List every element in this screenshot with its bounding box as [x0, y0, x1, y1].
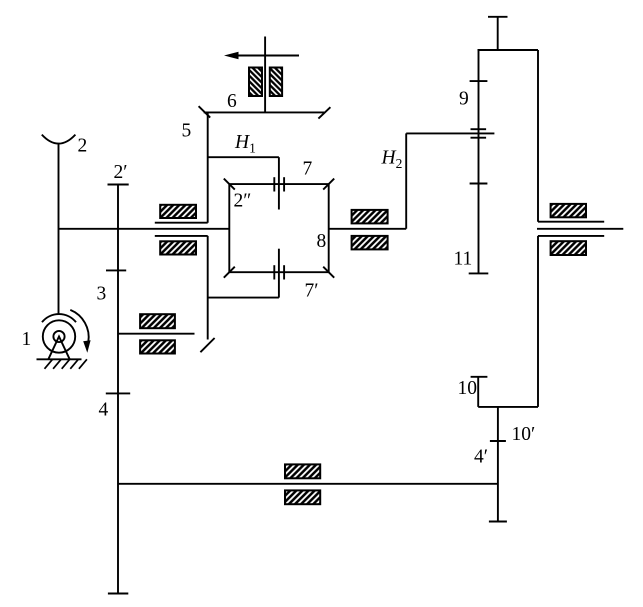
planet 7' hub bar right	[283, 265, 285, 279]
gear 10 stub	[477, 377, 479, 407]
bearing block below shaft 8	[352, 236, 388, 250]
sleeve bottom line at left bearing	[155, 235, 208, 237]
arrow head pointing left	[224, 52, 239, 59]
bearing block above output shaft	[551, 204, 586, 217]
drum right line lower segment	[537, 236, 539, 407]
bearing block below output shaft	[551, 241, 586, 255]
motor 1 inner circle	[53, 331, 64, 342]
gear 9 tick	[470, 80, 488, 82]
input horizontal shaft (wire)	[59, 228, 230, 230]
carrier H1 top arm	[208, 156, 279, 158]
sleeve top line at left bearing	[155, 222, 208, 224]
gear 6 face line	[204, 111, 325, 113]
bevel tick right end of gear 6 line	[318, 107, 330, 118]
H2 sleeve bar above shaft 9-11	[471, 128, 487, 130]
rotation arrow head	[83, 340, 90, 353]
bevel tick top-left corner	[224, 179, 235, 190]
svg-text:1: 1	[22, 329, 32, 350]
motor ground line	[37, 358, 82, 360]
output sleeve bottom line	[538, 235, 604, 237]
motor 1 outer circle	[43, 320, 75, 352]
drum top line	[478, 49, 539, 51]
planet 7 hub bar left	[273, 177, 275, 191]
drum bottom line (gear 10 arm)	[478, 406, 538, 408]
bearing block above lower-left shaft	[140, 314, 175, 328]
svg-text:2′: 2′	[114, 162, 128, 183]
motor 1 casing arc	[42, 314, 76, 322]
bearing block lower-left of input shaft	[160, 241, 196, 254]
motor 1 support triangle	[48, 337, 69, 360]
planet 7 hub bar right	[283, 177, 285, 191]
svg-text:11: 11	[454, 249, 473, 270]
carrier H1 bottom arm	[208, 297, 279, 299]
bevel tick bottom-left corner	[224, 267, 235, 278]
shaft 9-11 bottom end-cap	[469, 272, 489, 274]
lower-left horizontal shaft (wire)	[118, 333, 195, 335]
carrier H2 vertical arm	[405, 133, 407, 228]
svg-text:3: 3	[97, 284, 107, 305]
bevel tick at bottom of gear-5 shaft	[200, 338, 214, 352]
bevel tick top-right corner	[323, 179, 334, 190]
gear 5 hollow shaft upper segment	[207, 112, 209, 222]
gear 11 tick	[470, 183, 488, 185]
gear 3 tick	[106, 269, 126, 271]
svg-text:10: 10	[458, 378, 478, 399]
ring gear stub at top	[497, 17, 499, 50]
arrow line at gear 6 shaft	[231, 55, 299, 57]
shaft bottom end-cap	[108, 593, 128, 595]
shaft of motor / gear 2 (vertical wire)	[58, 143, 60, 315]
shaft of gear 8 (wire)	[329, 228, 407, 230]
svg-text:2: 2	[78, 136, 88, 157]
bearing block upper-left of input shaft	[160, 205, 196, 218]
bearing block above bottom shaft	[285, 464, 320, 478]
bevel tick bottom-right corner	[323, 267, 334, 278]
svg-text:10′: 10′	[512, 424, 536, 445]
drum right line upper segment	[537, 50, 539, 222]
shaft of gears 9 and 11 (vertical wire)	[478, 50, 480, 273]
shaft of gears 2',3,4 (vertical wire)	[117, 185, 119, 594]
gear 4 tick	[106, 392, 130, 394]
shaft of 10'/4' (vertical wire)	[497, 407, 499, 522]
svg-text:2″: 2″	[234, 191, 252, 212]
gear 6 vertical shaft	[264, 37, 266, 113]
gear 2' end-cap	[108, 184, 129, 186]
ring gear stub end-cap	[488, 16, 508, 18]
bearing block left of gear-6 shaft	[249, 68, 262, 97]
bearing block above shaft 8	[352, 210, 388, 224]
bevel gear square right line (gear 8)	[328, 184, 330, 272]
svg-text:8: 8	[317, 231, 327, 252]
svg-text:4: 4	[99, 400, 109, 421]
bevel gear square top line (planet 7)	[229, 183, 328, 185]
svg-text:7: 7	[303, 159, 313, 180]
gear 2 (arc symbol)	[42, 135, 76, 144]
rotation arrow arc of motor	[70, 310, 88, 342]
bearing block right of gear-6 shaft	[270, 68, 282, 97]
svg-text:4′: 4′	[474, 447, 488, 468]
carrier H1 central arm upper part	[278, 157, 280, 209]
H2 sleeve bar below shaft 9-11	[471, 137, 487, 139]
svg-text:9: 9	[459, 89, 469, 110]
shaft 4' bottom end-cap	[489, 521, 507, 523]
bevel gear square left line (gear 2'')	[228, 184, 230, 272]
bearing block below bottom shaft	[285, 490, 320, 504]
planet 7' hub bar left	[273, 265, 275, 279]
gear 10 end-cap	[471, 376, 488, 378]
carrier H2 horizontal arm	[406, 132, 494, 134]
gear 10' tick	[490, 440, 506, 442]
output shaft center line	[537, 228, 623, 230]
svg-text:7′: 7′	[305, 281, 319, 302]
svg-text:5: 5	[182, 121, 192, 142]
long bottom shaft (wire)	[118, 483, 498, 485]
bearing block below lower-left shaft	[140, 340, 175, 353]
output sleeve top line	[538, 221, 604, 223]
svg-text:6: 6	[227, 91, 237, 112]
bevel gear square bottom line (planet 7')	[229, 271, 328, 273]
gear 5 hollow shaft lower segment	[207, 236, 209, 340]
bevel tick left end of gear 6 line	[199, 106, 211, 117]
carrier H1 central arm lower part	[278, 249, 280, 298]
motor ground hatching	[45, 359, 53, 369]
